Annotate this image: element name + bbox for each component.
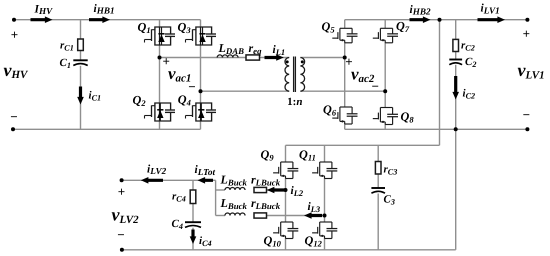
node LV1+ terminal <box>525 18 529 22</box>
transistor Q7 <box>380 27 392 29</box>
transistor Q12 <box>320 221 332 223</box>
transistor Q6 <box>340 106 352 108</box>
wire Q11 leg drain <box>324 145 326 162</box>
wire LV2 top output <box>122 179 216 181</box>
wire Q6 leg source <box>344 124 346 129</box>
resistor r_LBuck branch2 <box>254 213 267 218</box>
wire C4 to LV2 bottom rail <box>192 228 194 250</box>
node LV1- terminal <box>525 127 529 131</box>
svg-text:−: − <box>10 109 17 124</box>
wire Q4 leg source <box>200 121 202 129</box>
current arrow I_HV <box>31 16 53 23</box>
wire LV1 node down to buck bridge rail <box>439 20 441 146</box>
wire C1 to HV bottom rail <box>80 66 82 130</box>
wire top rail LV segment Q5 to v_LV1 <box>345 19 528 21</box>
wire top rail HV segment <box>14 19 160 21</box>
transistor Q9 <box>281 161 293 163</box>
capacitor C2 <box>449 59 462 61</box>
resistor r_C3 <box>375 162 381 175</box>
svg-text:1:n: 1:n <box>287 96 302 108</box>
current arrow i_LV2 <box>141 177 163 184</box>
wire r_C2 to C2 <box>455 52 457 60</box>
svg-text:+: + <box>118 184 125 199</box>
node vac2+ <box>343 56 347 60</box>
wire Q10 leg source <box>285 239 287 250</box>
current arrow i_L1 <box>265 54 284 61</box>
wire top rail between Q1 and Q3 legs <box>160 19 201 21</box>
svg-text:−: − <box>188 79 195 94</box>
svg-text:IHV: IHV <box>34 3 54 16</box>
wire r_C1 to C1 <box>80 51 82 61</box>
svg-text:+: + <box>11 27 18 42</box>
node vac1- <box>199 89 203 93</box>
svg-text:iLV2: iLV2 <box>147 163 167 176</box>
wire Q9 leg drain <box>285 145 287 162</box>
wire r_C1 branch upper <box>80 20 82 39</box>
wire r_C3 to C3 <box>377 174 379 188</box>
current arrow i_C1 <box>77 87 84 105</box>
svg-text:iLV1: iLV1 <box>481 3 500 16</box>
wire Q7 leg drain <box>384 20 386 29</box>
svg-text:−: − <box>371 79 378 94</box>
wire Q3-Q4 leg midpoint segment <box>200 45 202 103</box>
wire Q12 leg source <box>324 239 326 250</box>
inductor L_Buck branch1 <box>225 188 245 191</box>
resistor r_C1 <box>78 39 84 51</box>
transistor Q3 <box>196 27 212 45</box>
inductor L_Buck branch2 <box>225 213 245 215</box>
wire Q11-Q12 leg segment <box>324 179 326 223</box>
inductor L_DAB <box>217 55 238 58</box>
current arrow i_LTot <box>198 177 214 184</box>
wire C2 to LV1 bottom rail <box>455 65 457 130</box>
capacitor C3 <box>371 187 385 189</box>
wire Q5-Q6 leg midpoint segment <box>344 43 346 107</box>
node vac1+ <box>158 56 162 60</box>
svg-text:−: − <box>117 227 124 242</box>
wire Q2 leg source <box>159 121 161 129</box>
svg-text:iL1: iL1 <box>273 44 286 57</box>
resistor r_eq <box>246 55 260 60</box>
wire vac1- to transformer primary bottom <box>201 90 290 92</box>
wire vac1+ to transformer primary top <box>160 57 290 59</box>
wire buck branch2 right <box>267 215 325 217</box>
wire Q1 leg drain <box>159 20 161 27</box>
current arrow i_HB2 <box>410 16 431 23</box>
capacitor C4 <box>185 221 201 223</box>
node HV- terminal <box>11 127 15 131</box>
wire Q1-Q2 leg midpoint segment <box>159 45 161 103</box>
capacitor C1 <box>73 59 87 61</box>
transistor Q5 <box>340 27 352 29</box>
wire LV1 bottom rail <box>345 128 528 130</box>
wire Q7-Q8 leg midpoint segment <box>384 43 386 108</box>
wire Q8 leg source <box>384 125 386 130</box>
svg-text:−: − <box>523 107 530 122</box>
transformer primary polarity dot <box>286 60 289 63</box>
wire transformer secondary bottom to vac2- <box>300 90 385 92</box>
transistor Q2 <box>155 103 171 121</box>
resistor r_LBuck branch1 <box>254 187 267 192</box>
wire C3 to LV2 bottom rail <box>377 194 379 250</box>
current arrow i_LV1 <box>478 16 506 23</box>
wire LV2 ground right edge <box>455 129 457 250</box>
transformer secondary polarity dot <box>301 60 304 63</box>
wire buck branch1 right <box>267 189 286 191</box>
wire transformer secondary top to vac2+ <box>300 57 344 59</box>
node vac2- <box>383 89 387 93</box>
svg-text:iL3: iL3 <box>308 201 321 214</box>
svg-text:iL2: iL2 <box>291 185 304 198</box>
wire buck branch2 left <box>216 215 225 217</box>
wire r_C4 to C4 <box>192 204 194 223</box>
transistor Q10 <box>281 221 293 223</box>
transistor Q4 <box>196 103 212 121</box>
current arrow i_C2 <box>452 76 459 100</box>
transistor Q11 <box>320 161 332 163</box>
current arrow i_L3 <box>304 212 322 219</box>
node LV2- terminal <box>120 248 124 252</box>
wire Q3 leg drain <box>200 20 202 27</box>
node LV1 bottom rail / ground link junction <box>454 127 458 131</box>
current arrow i_L2 <box>267 187 285 194</box>
wire Q5 leg drain <box>344 20 346 29</box>
node i_L3 junction <box>323 214 327 218</box>
wire buck common corner vertical <box>215 180 217 215</box>
svg-text:iLTot: iLTot <box>195 164 216 177</box>
current arrow i_C4 <box>190 230 197 245</box>
node HV+ terminal <box>12 18 16 22</box>
wire r_C3 branch upper <box>377 145 379 161</box>
transistor Q8 <box>380 107 392 109</box>
transformer primary winding <box>285 58 289 92</box>
transistor Q1 <box>155 27 171 45</box>
resistor r_C4 <box>190 190 196 204</box>
wire buck branch1 left <box>216 189 225 191</box>
wire Q9-Q10 leg segment <box>285 179 287 223</box>
node LV1 rail junction <box>438 18 442 22</box>
wire r_C2 branch upper <box>455 20 457 40</box>
transformer secondary winding <box>300 58 304 92</box>
svg-text:+: + <box>523 26 530 41</box>
svg-text:iHB2: iHB2 <box>410 4 431 17</box>
node LV2+ terminal <box>120 178 124 182</box>
node i_L2 junction <box>284 188 288 192</box>
wire HV bottom rail <box>13 128 201 130</box>
resistor r_C2 <box>453 39 459 51</box>
wire buck bridge top rail <box>286 144 440 146</box>
transformer core <box>293 57 295 93</box>
current arrow i_HB1 <box>89 16 110 23</box>
svg-text:iHB1: iHB1 <box>94 3 115 16</box>
wire r_C4 branch upper <box>192 180 194 190</box>
wire LV2 bottom rail <box>122 249 456 251</box>
